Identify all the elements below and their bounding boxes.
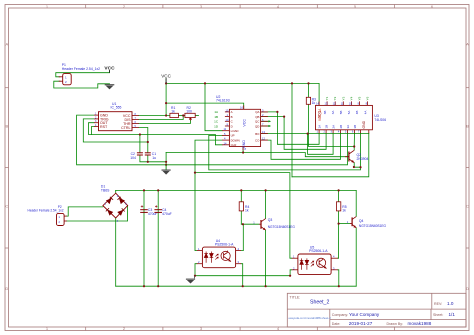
wire QA to U3 pin1	[261, 112, 319, 144]
wire Q4 collector	[355, 190, 357, 216]
svg-text:VCC_1A: VCC_1A	[318, 108, 322, 121]
svg-text:Company:: Company:	[332, 313, 348, 317]
node c2top	[139, 133, 141, 135]
connector P2	[28, 205, 67, 226]
svg-text:UP: UP	[231, 134, 235, 138]
wire R3 bottom to Q2 collector	[309, 104, 355, 146]
IC U2 74LS193	[214, 95, 271, 151]
node rail-r4	[240, 189, 242, 191]
svg-text:D: D	[466, 286, 469, 291]
svg-text:VCC: VCC	[161, 74, 171, 79]
svg-text:PS2506-1-A: PS2506-1-A	[215, 243, 234, 247]
svg-text:1k: 1k	[312, 101, 316, 105]
svg-text:104: 104	[130, 156, 136, 160]
wire P2 pin2 to bridge right	[66, 206, 127, 221]
wire U2 GND drop	[242, 147, 244, 153]
wire U4 pin2 drop	[195, 264, 197, 276]
svg-text:B: B	[231, 115, 233, 119]
svg-text:TB6S: TB6S	[101, 188, 110, 192]
svg-text:CTRL: CTRL	[121, 126, 130, 130]
op-amp/timer U1 IC_555	[94, 102, 139, 131]
U5 emission arrows	[311, 261, 314, 266]
wire P2 pin1 to bridge left	[66, 207, 103, 216]
svg-text:BO: BO	[255, 132, 260, 136]
svg-text:QC: QC	[255, 120, 259, 124]
node 555vcc	[165, 114, 167, 116]
wire R5 bottom to base node	[338, 211, 340, 224]
svg-text:CO: CO	[255, 138, 260, 142]
svg-text:Sheet:: Sheet:	[433, 313, 443, 317]
svg-text:Q3: Q3	[268, 218, 273, 222]
node r1r2	[182, 114, 184, 116]
wire 555 OUT to U2 CLR	[89, 123, 223, 145]
svg-text:QD: QD	[255, 124, 259, 128]
node rail-c3	[143, 189, 145, 191]
wire BO branch to U3 pin3	[308, 133, 334, 154]
wire C1 vertical	[147, 142, 149, 153]
U3 top net flags	[325, 96, 370, 100]
wire U2 DOWN to opto inputs	[195, 140, 222, 251]
svg-text:Drawn By:: Drawn By:	[387, 322, 404, 326]
diodes on bridge arms	[106, 197, 125, 215]
wire C2 vertical	[139, 135, 141, 153]
svg-text:REV:: REV:	[434, 302, 442, 306]
potentiometer R2	[185, 106, 195, 121]
svg-text:1k: 1k	[342, 209, 346, 213]
frame row ticks right	[466, 88, 469, 248]
transistor Q2 2N3904	[345, 150, 368, 162]
svg-text:Sheet_2: Sheet_2	[310, 300, 329, 306]
wire gnd rail bottom	[116, 285, 357, 287]
svg-text:2019-01-27: 2019-01-27	[349, 321, 373, 326]
node qb	[283, 116, 285, 118]
svg-text:Y5: Y5	[358, 96, 362, 100]
U2 right pins	[261, 112, 268, 140]
node q3base	[242, 223, 244, 225]
svg-text:1/1: 1/1	[449, 312, 456, 317]
svg-text:1.0: 1.0	[447, 301, 454, 306]
optocoupler U5 PS2506-1-A	[292, 245, 338, 274]
left pins of U1	[94, 115, 99, 126]
svg-text:PS2506-1-A: PS2506-1-A	[309, 249, 328, 253]
svg-text:1k: 1k	[171, 109, 175, 113]
svg-text:A: A	[231, 110, 233, 114]
svg-text:2B: 2B	[339, 125, 343, 129]
node bo-branch	[307, 133, 309, 135]
svg-text:6A: 6A	[331, 111, 335, 115]
wire Q3 collector	[265, 190, 267, 218]
wire CO to U3 pin4	[261, 133, 341, 159]
wire opto gnd rail	[195, 275, 291, 277]
wire 555 TRIG loop	[83, 119, 148, 142]
wire +V rail	[116, 189, 357, 191]
svg-text:2N3904: 2N3904	[357, 157, 369, 161]
svg-text:3B: 3B	[353, 125, 357, 129]
svg-text:1B: 1B	[325, 125, 329, 129]
wire R4 bottom to base node	[240, 211, 242, 224]
frame row letters	[5, 42, 469, 292]
svg-text:Y4: Y4	[349, 96, 353, 100]
svg-text:NGTG15N60S1EG: NGTG15N60S1EG	[268, 225, 296, 229]
wire Q4 base	[339, 223, 350, 225]
svg-text:NGTG15N60S1EG: NGTG15N60S1EG	[359, 224, 387, 228]
wire R1 to R2	[178, 115, 185, 117]
node gndrail-q3e	[265, 285, 267, 287]
svg-text:Q4: Q4	[359, 219, 364, 223]
wire Q4 emitter down	[355, 228, 357, 286]
wire 555 VCC to R1	[139, 115, 170, 117]
svg-text:Header Female 2.54_1x2: Header Female 2.54_1x2	[62, 67, 100, 71]
wire VCC stick top rail	[165, 79, 167, 84]
wire DIS to R1/R2 junction	[139, 116, 183, 120]
svg-text:3A: 3A	[346, 125, 350, 129]
svg-text:Y2: Y2	[333, 96, 337, 100]
wire mid bus to Q2 base	[166, 153, 349, 157]
wire U4 pin3 drop	[241, 264, 243, 287]
wire QC stub	[261, 120, 269, 122]
node gnd-166	[165, 164, 167, 166]
svg-text:74LS193: 74LS193	[216, 99, 230, 103]
wire opto input branch to U5	[195, 173, 292, 259]
node q2-collector	[353, 145, 355, 147]
right pins of U1	[132, 116, 139, 128]
wire cap node to 166	[148, 161, 166, 163]
node rail-r3	[307, 82, 309, 84]
VCC flag P1	[104, 66, 115, 73]
diode bridge D1 TB6S	[101, 185, 128, 223]
wire VCC rail to 555 VCC pin	[165, 83, 167, 115]
ground mid	[162, 165, 171, 175]
wire U2 UP loop	[209, 133, 361, 170]
resistor R3	[306, 97, 316, 105]
svg-text:GND: GND	[362, 120, 366, 128]
wire rail drop to U2 LOAD	[205, 83, 222, 130]
frame row ticks left	[5, 88, 9, 248]
U2 pin numbers	[224, 106, 266, 151]
node rail-205	[204, 82, 206, 84]
wire opto feed rail to U3 pin	[292, 133, 369, 177]
svg-text:D: D	[231, 124, 233, 128]
wire P1 pin2 to ground	[54, 81, 110, 88]
svg-text:1A: 1A	[318, 125, 322, 129]
svg-text:Your Company: Your Company	[349, 312, 380, 317]
wire Q2 emitter down	[354, 163, 360, 168]
transistor Q3 NGTG15N60S1EG	[253, 218, 295, 230]
frame column ticks top	[86, 5, 395, 9]
svg-text:A: A	[466, 42, 469, 47]
wire bridge top to +V rail	[115, 190, 117, 193]
svg-text:Header Female 2.54_1x2: Header Female 2.54_1x2	[28, 209, 64, 213]
node gndrail-u5p3	[338, 285, 340, 287]
node q4base	[338, 223, 340, 225]
U5 internal LEDs	[300, 258, 309, 269]
svg-text:6B: 6B	[323, 111, 327, 115]
wire R5 vertical top	[338, 190, 340, 202]
svg-text:1B: 1B	[214, 115, 218, 119]
wire VCC drop to opto feed	[291, 83, 293, 176]
resistor R1	[170, 106, 179, 118]
node rail-r5	[338, 189, 340, 191]
U4 phototransistor	[221, 251, 231, 262]
wire C3 vertical	[143, 190, 145, 286]
svg-text:4A: 4A	[363, 111, 367, 115]
svg-text:1A: 1A	[214, 110, 218, 114]
wire 166 riser	[165, 153, 167, 165]
frame column ticks bottom	[86, 327, 395, 331]
svg-text:Y6: Y6	[366, 96, 370, 100]
U3 top pins	[319, 101, 368, 105]
wire VCC branch to U2 VCC	[166, 103, 244, 109]
svg-text:Y3: Y3	[341, 96, 345, 100]
node opto-in	[194, 172, 196, 174]
svg-text:LOAD: LOAD	[231, 129, 239, 133]
svg-text:RST: RST	[100, 125, 108, 129]
svg-text:P1: P1	[62, 63, 66, 67]
wire U5 pin3 drop	[338, 270, 339, 286]
wire P1 pin1 to VCC	[56, 72, 110, 77]
node rail-q3c	[265, 189, 267, 191]
wire QD stub	[261, 125, 269, 127]
node ctrl-c1	[147, 141, 149, 143]
svg-text:C: C	[466, 204, 469, 209]
U2 left pins	[222, 112, 229, 145]
IC U3 74LS06	[316, 96, 387, 133]
wire U4 pin4 to Q3 base node	[241, 224, 243, 250]
wire U3 pin6 down to Q2 collector	[353, 133, 355, 150]
wire THR to R2 wiper	[139, 121, 191, 124]
VCC flag rail	[161, 74, 171, 84]
svg-text:100: 100	[186, 109, 192, 113]
wire R4 vertical top	[240, 190, 242, 202]
resistor R5	[337, 202, 347, 213]
wire 555 RST stub	[92, 127, 95, 135]
node rail-292	[291, 82, 293, 84]
wire bridge bottom down to gnd rail	[115, 218, 117, 286]
svg-text:VCC: VCC	[243, 119, 247, 127]
optocoupler U4 PS2506-1-A	[197, 239, 241, 268]
U4 emission arrows	[215, 254, 218, 259]
wire Q3 emitter down	[265, 230, 267, 286]
node optognd-u4	[194, 275, 196, 277]
svg-text:2A: 2A	[332, 125, 336, 129]
node rail-vcc	[165, 82, 167, 84]
wire 555 GND loop to gnd rail	[77, 115, 348, 165]
svg-text:5A: 5A	[347, 111, 351, 115]
svg-text:IC_555: IC_555	[111, 106, 122, 110]
svg-text:B: B	[5, 124, 8, 129]
svg-text:CLR: CLR	[231, 143, 237, 147]
resistor R4	[239, 202, 249, 213]
node capbus-166	[165, 161, 167, 163]
svg-text:Y1: Y1	[325, 96, 329, 100]
node rail-c4	[157, 189, 159, 191]
wire CTRL down to cap rail	[139, 128, 148, 143]
ground P1	[105, 84, 115, 89]
svg-text:movak1988: movak1988	[408, 321, 432, 326]
net flag QD arrow	[269, 125, 272, 127]
wire Q3 base	[241, 223, 259, 225]
wire U5 pin4 up to Q4 base node	[337, 224, 340, 259]
U2 top VCC pin	[243, 105, 245, 109]
svg-text:C: C	[231, 120, 233, 124]
svg-text:470uF: 470uF	[162, 212, 172, 216]
wire VCC rail top	[166, 83, 319, 105]
title block table	[287, 293, 466, 327]
svg-text:D: D	[5, 286, 8, 291]
U4 internal LEDs	[204, 252, 213, 263]
node gndrail-c4	[157, 285, 159, 287]
svg-text:DOWN: DOWN	[231, 138, 240, 142]
svg-text:B: B	[466, 124, 469, 129]
svg-text:QB: QB	[255, 115, 259, 119]
U2 left net labels	[214, 110, 219, 128]
wire QB to U3 pin2	[261, 117, 326, 150]
node u2gnd-cap	[242, 151, 244, 153]
node gndrail-u4p3	[242, 285, 244, 287]
capacitor C1	[145, 152, 156, 160]
svg-text:C: C	[5, 204, 8, 209]
wire R2 right stub	[195, 115, 198, 117]
capacitor C3 (polarized)	[140, 205, 157, 216]
node emitter-vert	[359, 166, 361, 168]
svg-text:4B: 4B	[355, 111, 359, 115]
U5 phototransistor	[317, 258, 327, 268]
svg-text:A: A	[5, 42, 8, 47]
node q2-emitter	[353, 166, 355, 168]
svg-text:QA: QA	[255, 110, 259, 114]
wire U5 pin2 drop	[290, 270, 292, 276]
node qa	[276, 111, 278, 113]
connector P1	[59, 63, 100, 85]
U3 bottom pins	[319, 130, 369, 133]
node gndrail-c3	[143, 285, 145, 287]
svg-text:1k: 1k	[245, 209, 249, 213]
svg-text:1u: 1u	[152, 156, 156, 160]
node u2vcc	[165, 102, 167, 104]
wire C4 vertical	[157, 190, 159, 286]
U3 pin numbers bottom	[317, 130, 360, 134]
transistor Q4 NGTG15N60S1EG	[347, 217, 387, 229]
svg-text:TITLE:: TITLE:	[290, 296, 301, 300]
capacitor C2	[130, 152, 143, 160]
svg-text:easyeda-com/movak1988-sheet-2: easyeda-com/movak1988-sheet-2	[289, 316, 332, 320]
wire R3 top	[308, 83, 310, 97]
svg-text:74LS06: 74LS06	[374, 118, 386, 122]
capacitor C4 (polarized)	[154, 205, 171, 216]
U2 bottom GND pin	[242, 147, 244, 151]
node optognd-u5	[289, 275, 291, 277]
frame column numbers	[46, 4, 434, 331]
ground opto	[186, 276, 195, 284]
svg-text:5B: 5B	[339, 111, 343, 115]
wire BO long to U3 gnd pin	[261, 133, 369, 135]
U3 pin numbers top	[316, 102, 368, 106]
net flag QC arrow	[269, 120, 272, 122]
node capfoot	[147, 161, 149, 163]
svg-text:GND: GND	[242, 140, 246, 148]
svg-text:Date:: Date:	[332, 322, 341, 326]
